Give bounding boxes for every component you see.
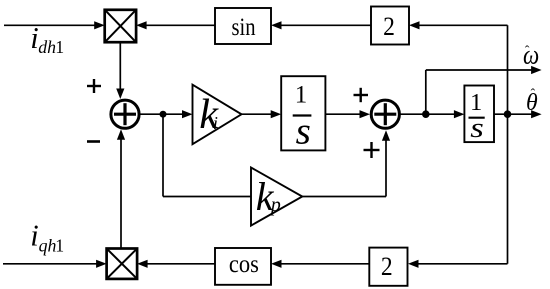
arrowhead into M1 right	[136, 21, 147, 29]
arrowhead into sin right	[271, 21, 282, 29]
minus sign S1 bottom	[87, 140, 100, 143]
wire M2 up to S1	[120, 139, 122, 249]
wire sin to M1	[145, 24, 215, 26]
svg-text:2: 2	[381, 253, 393, 282]
svg-text:2: 2	[383, 13, 395, 42]
node C (omega takeoff)	[422, 110, 430, 118]
wire M1 down to summer S1	[119, 42, 121, 90]
wire S2 to integrator I2	[399, 113, 455, 115]
plus sign S2 bottom	[364, 142, 380, 158]
wire cos to M2	[146, 263, 215, 265]
node B (after S1, to Kp) wire down	[162, 114, 164, 196]
arrowhead into S2 bottom	[382, 130, 390, 141]
svg-text:ˆ: ˆ	[531, 86, 536, 101]
arrowhead theta output	[531, 110, 542, 118]
summer S1	[111, 100, 139, 128]
gain block Kp	[251, 168, 302, 226]
wire 2bottom to cos	[280, 263, 369, 265]
summer S2	[371, 100, 399, 128]
wire node B to Kp	[163, 196, 251, 198]
arrowhead into 2bottom right	[408, 260, 419, 268]
node A (Kp takeoff)	[160, 111, 167, 118]
wire 2top to sin	[280, 24, 371, 26]
svg-text:dh: dh	[38, 37, 56, 57]
arrowhead into I2	[454, 110, 465, 118]
label omega-hat	[523, 41, 539, 70]
svg-text:1: 1	[295, 82, 308, 109]
wire I2 to theta output	[494, 113, 532, 115]
svg-text:i: i	[30, 219, 38, 253]
svg-text:ˆ: ˆ	[525, 43, 530, 58]
svg-text:cos: cos	[229, 251, 259, 278]
wire input i_dh1 to multiplier M1	[4, 24, 96, 26]
block 2 bottom	[369, 248, 407, 286]
wire I1 to summer S2	[325, 113, 361, 115]
arrowhead into S1 bottom	[117, 129, 125, 140]
label i_dh1	[30, 21, 64, 57]
svg-text:s: s	[470, 111, 484, 144]
wire omega branch up and right	[425, 70, 427, 114]
svg-text:1: 1	[55, 236, 64, 256]
plus sign S1 top	[87, 79, 101, 93]
plus sign S2 top	[354, 88, 369, 102]
arrowhead into M1 left	[94, 21, 105, 29]
svg-text:qh: qh	[39, 236, 57, 256]
svg-text:p: p	[269, 194, 281, 216]
block 2 top	[371, 7, 409, 45]
wire feedback vertical	[507, 25, 509, 263]
wire feedback to 2 bottom	[417, 263, 508, 265]
arrowhead into M2 right	[137, 260, 148, 268]
multiplier M2	[107, 249, 138, 279]
multiplier M1	[105, 10, 136, 42]
gain block Ki	[193, 85, 242, 145]
label theta-hat	[526, 86, 538, 116]
arrowhead into cos right	[271, 260, 282, 268]
arrowhead into I1	[271, 110, 282, 118]
wire S1 to gain Ki	[139, 113, 183, 115]
integrator I2 (1/s)	[464, 86, 494, 143]
svg-text:sin: sin	[231, 13, 256, 40]
wire feedback to 2top	[418, 24, 508, 26]
block cos	[215, 248, 271, 285]
arrowhead into S2 left	[360, 110, 371, 118]
svg-text:s: s	[296, 111, 311, 152]
label i_qh1	[30, 219, 64, 256]
wire input i_qh1 to M2	[3, 263, 98, 265]
arrowhead omega output	[531, 66, 542, 74]
arrowhead into S1 top	[116, 89, 124, 100]
svg-text:1: 1	[55, 37, 64, 57]
arrowhead into M2 left	[96, 260, 107, 268]
integrator I1 (1/s)	[281, 76, 325, 150]
arrowhead into Ki	[182, 110, 193, 118]
arrowhead into 2top right	[409, 21, 420, 29]
svg-text:i: i	[213, 113, 218, 133]
wire Ki to integrator I1	[242, 113, 273, 115]
block sin	[215, 8, 271, 44]
node D (feedback takeoff)	[504, 110, 512, 118]
wire Kp to S2 bottom	[302, 196, 386, 198]
